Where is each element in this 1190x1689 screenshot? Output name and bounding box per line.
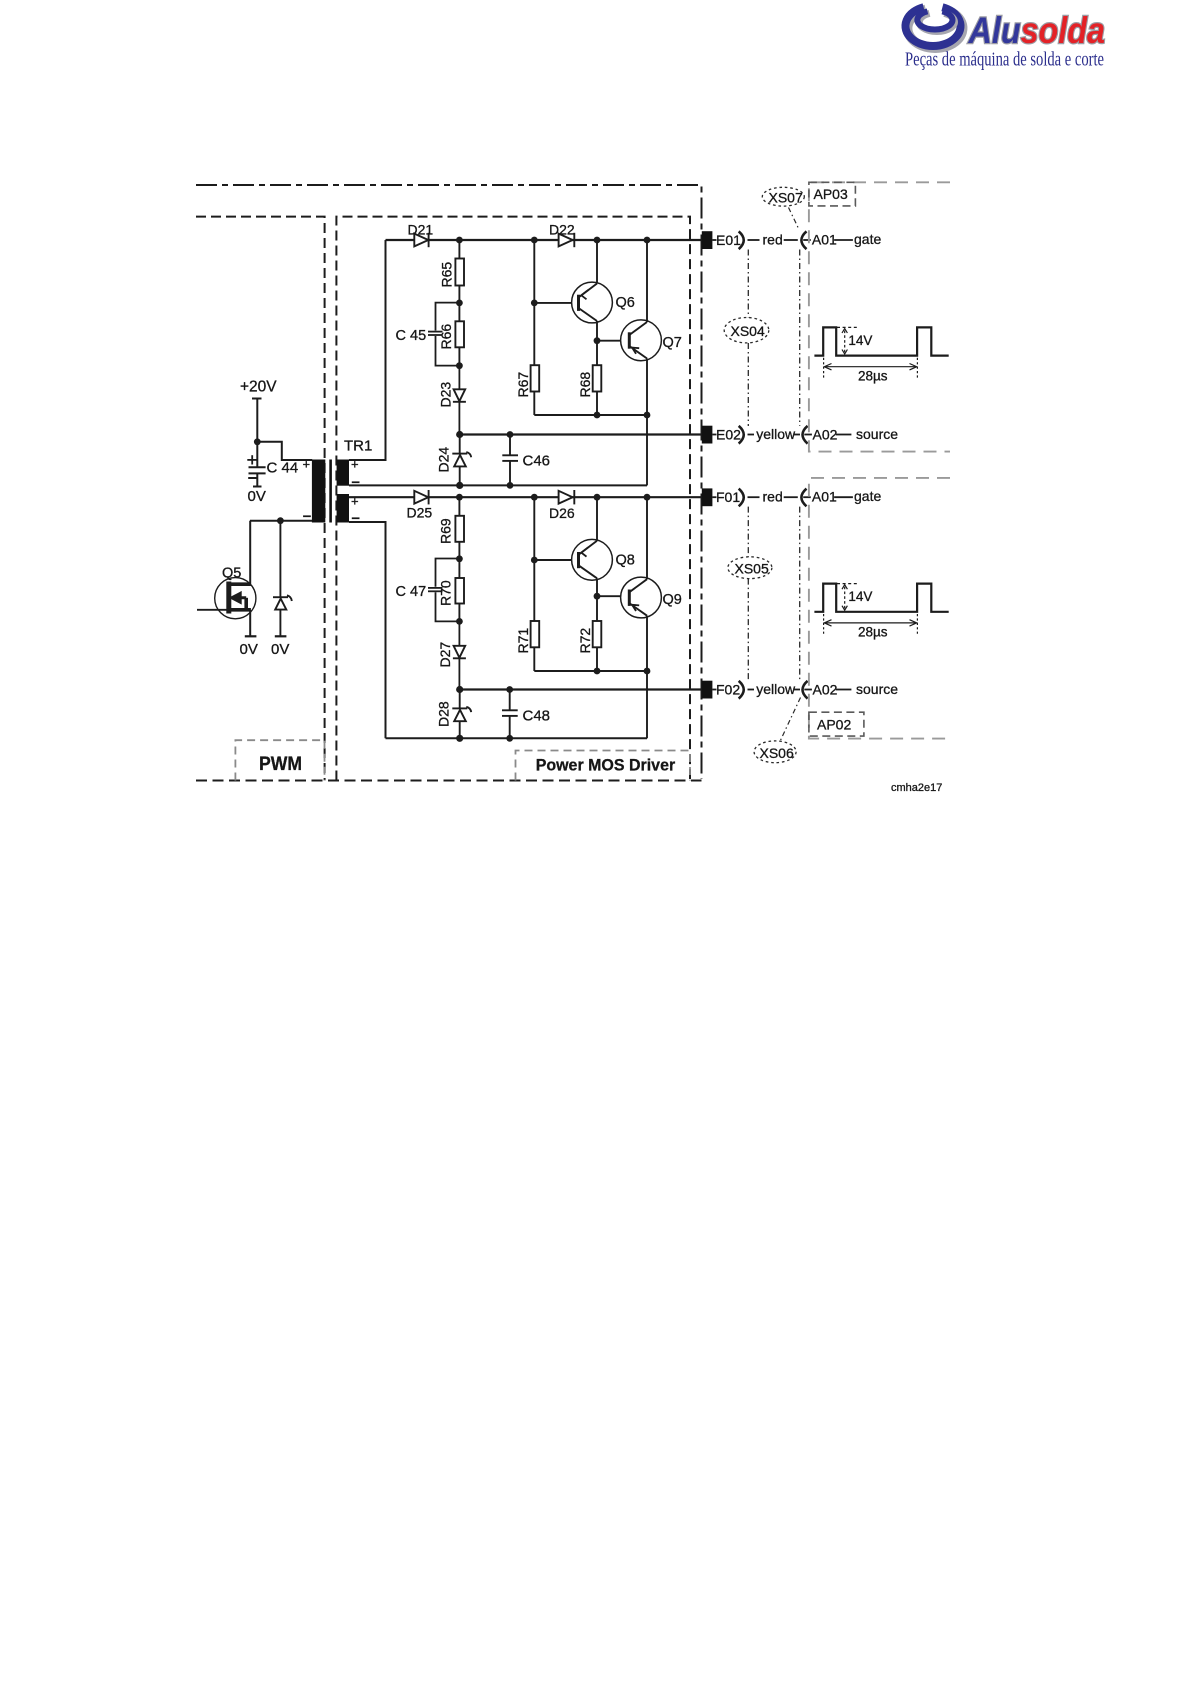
svg-text:C 44: C 44 — [267, 460, 299, 477]
A01 plug arc F row — [801, 489, 806, 507]
wire R68 bottom — [596, 392, 598, 416]
PWM label box — [235, 740, 324, 780]
cable line XS04 left — [747, 250, 749, 427]
wire F01 to red — [748, 496, 760, 498]
F02 socket arc — [739, 681, 744, 699]
svg-text:+: + — [351, 457, 359, 472]
svg-text:–: – — [303, 508, 311, 525]
svg-text:C 45: C 45 — [396, 328, 427, 344]
+20V terminal tick — [252, 398, 262, 400]
wire Q9 collector to return — [646, 671, 648, 738]
svg-text:R71: R71 — [515, 628, 531, 654]
wire R69 to node — [458, 542, 460, 559]
svg-text:R66: R66 — [438, 324, 454, 350]
wire node to TR1 primary + — [257, 442, 312, 460]
E02 stub — [712, 434, 716, 436]
wire Q6 base — [534, 302, 572, 304]
wire upper secondary + up to gate rail — [349, 240, 386, 460]
outer dash-dot boundary box — [196, 185, 702, 781]
svg-text:14V: 14V — [848, 333, 872, 348]
cable line XS05 left — [747, 507, 749, 681]
node Q8 base — [531, 557, 538, 564]
connector E02 block — [702, 426, 713, 444]
wire F02 to yellow — [748, 689, 755, 691]
E01 stub — [712, 239, 716, 241]
svg-text:D21: D21 — [408, 222, 434, 238]
connector F01 block — [702, 488, 713, 506]
svg-text:red: red — [763, 232, 783, 248]
svg-text:28µs: 28µs — [858, 625, 888, 640]
svg-text:source: source — [856, 426, 898, 442]
F02 stub — [712, 689, 716, 691]
XS06 ellipse — [754, 741, 796, 763]
svg-text:C48: C48 — [523, 708, 551, 725]
resistor R66 — [455, 303, 464, 366]
svg-text:D28: D28 — [436, 701, 452, 727]
transformer TR1 lower secondary winding — [337, 494, 349, 523]
transistor Q9 — [621, 497, 662, 671]
svg-text:F01: F01 — [716, 489, 740, 505]
XS07 ellipse — [762, 187, 804, 206]
wire yellow to plug — [794, 434, 800, 436]
0V rail wire to TR1 primary - — [250, 520, 312, 522]
svg-text:D22: D22 — [549, 222, 575, 238]
wire R67 bottom — [533, 392, 535, 416]
14V annotation upper — [837, 327, 859, 354]
transistor Q5 (MOSFET) — [197, 521, 256, 637]
svg-text:D23: D23 — [438, 382, 454, 408]
wire node to R72 — [596, 596, 598, 621]
wire R71 bottom — [533, 647, 535, 671]
connector E01 block — [702, 231, 713, 249]
wire Q7 collector to return — [646, 415, 648, 485]
wire upper emitter bus — [534, 414, 647, 416]
svg-text:TR1: TR1 — [344, 438, 372, 455]
E02 socket arc — [739, 426, 744, 444]
wire A02 to source F row — [836, 689, 852, 691]
svg-text:Power MOS Driver: Power MOS Driver — [536, 756, 676, 775]
node Q6 emitter / Q7 base — [594, 337, 601, 344]
wire A01 to gate — [834, 239, 853, 241]
28us annotation upper — [824, 358, 918, 378]
Power MOS Driver label box — [516, 751, 691, 781]
wire E02 source rail — [460, 433, 702, 435]
svg-text:A02: A02 — [813, 427, 838, 443]
capacitor C45 bracket — [428, 303, 459, 366]
wire Q9 base — [597, 595, 621, 597]
28us annotation lower — [824, 614, 918, 634]
svg-text:E02: E02 — [716, 427, 741, 443]
svg-text:A01: A01 — [812, 232, 837, 248]
diode D25 — [414, 490, 428, 504]
svg-text:XS07: XS07 — [769, 190, 803, 206]
capacitor C44 — [247, 442, 265, 487]
svg-text:yellow: yellow — [756, 681, 796, 697]
svg-text:A02: A02 — [813, 682, 838, 698]
svg-text:R70: R70 — [438, 580, 454, 606]
svg-text:0V: 0V — [240, 641, 258, 658]
svg-text:cmha2e17: cmha2e17 — [891, 782, 942, 794]
wire A01 to gate F row — [834, 496, 853, 498]
transistor Q7 — [621, 240, 662, 415]
node gate rail / Q7 — [644, 237, 651, 244]
svg-text:D25: D25 — [407, 505, 433, 521]
svg-text:0V: 0V — [271, 641, 289, 658]
resistor R68 — [593, 365, 602, 391]
svg-text:Q8: Q8 — [616, 553, 635, 569]
node R66/C45 bottom — [456, 362, 463, 369]
resistor R65 — [455, 259, 464, 286]
svg-text:R67: R67 — [515, 372, 531, 398]
node return / C46 — [507, 482, 514, 489]
node E02 rail / D24 — [456, 431, 463, 438]
A02 pin tick E row — [804, 434, 812, 436]
logo Alusolda wordmark — [968, 10, 1105, 51]
A01 pin tick E row — [803, 239, 811, 241]
svg-text:F02: F02 — [716, 682, 740, 698]
node lower emitter bus / Q9 — [644, 668, 651, 675]
node gate rail / Q6 — [594, 237, 601, 244]
wire E01 gate rail — [386, 239, 703, 241]
resistor R70 — [455, 559, 464, 622]
svg-text:A01: A01 — [812, 489, 837, 505]
wire A02 to source — [836, 434, 852, 436]
node F01 rail / Q8 — [594, 494, 601, 501]
svg-text:XS04: XS04 — [731, 323, 765, 339]
wire red to plug F row — [784, 496, 798, 498]
XS05 ellipse — [728, 557, 772, 579]
svg-text:R65: R65 — [439, 262, 455, 288]
cable line XS05 right — [799, 507, 801, 681]
svg-text:C 47: C 47 — [396, 584, 427, 600]
svg-text:+: + — [351, 494, 359, 509]
node R69/R70/C47 top — [456, 555, 463, 562]
svg-text:14V: 14V — [848, 589, 872, 604]
node R70/C47 bottom — [456, 618, 463, 625]
transformer TR1 core — [329, 460, 332, 523]
node lower emitter bus / R72 — [594, 668, 601, 675]
node return / C48 — [506, 735, 513, 742]
PWM block dashed box — [196, 217, 325, 781]
wire F02 source rail — [460, 688, 702, 690]
capacitor C47 bracket — [428, 559, 459, 622]
cable line XS04 right — [799, 250, 801, 426]
Power MOS Driver block dashed box — [336, 217, 690, 781]
node at +20V branch — [254, 438, 261, 445]
svg-text:Q6: Q6 — [616, 295, 635, 311]
E01 socket arc — [739, 231, 744, 249]
wire rail to R65 — [458, 240, 460, 259]
wire rail to Q6 base resistor chain — [533, 240, 535, 365]
node on 0V rail — [277, 517, 284, 524]
node return / D28 — [456, 735, 463, 742]
node F01 rail / Q9 — [644, 494, 651, 501]
wire rail to Q8 base resistor chain — [533, 497, 535, 621]
svg-text:AP02: AP02 — [817, 717, 851, 733]
resistor R71 — [531, 621, 540, 647]
AP02 dashed box — [809, 478, 950, 739]
diode D26 — [559, 490, 575, 504]
svg-text:+: + — [303, 457, 311, 472]
zener diode D24 — [452, 435, 471, 486]
node E02 rail / C46 — [507, 431, 514, 438]
node emitter bus / Q7 — [644, 412, 651, 419]
zener diode D28 — [452, 690, 471, 739]
svg-text:yellow: yellow — [756, 426, 796, 442]
F01 socket arc — [739, 489, 744, 507]
gate waveform upper — [814, 327, 948, 355]
svg-text:–: – — [352, 510, 360, 527]
svg-text:XS06: XS06 — [760, 745, 794, 761]
XS07 leader — [789, 208, 800, 230]
AP02 label box — [809, 712, 864, 736]
svg-text:R72: R72 — [577, 628, 593, 654]
XS04 ellipse — [724, 318, 769, 343]
diode D23 — [453, 366, 466, 435]
A02 plug arc F row — [803, 681, 808, 699]
wire upper secondary - return line — [349, 484, 647, 486]
node Q8 emitter / Q9 base — [594, 593, 601, 600]
transformer TR1 primary winding — [312, 460, 325, 523]
wire lower return line — [386, 737, 648, 739]
wire F01 gate rail — [349, 496, 702, 498]
wire lower secondary - down to lower return — [349, 522, 386, 738]
wire +20V down to node — [256, 399, 258, 442]
svg-text:PWM: PWM — [259, 754, 302, 775]
resistor R67 — [531, 365, 540, 391]
node F01 rail / R69 — [456, 494, 463, 501]
capacitor C48 — [502, 690, 518, 739]
node F02 rail / D28 — [456, 686, 463, 693]
svg-text:gate: gate — [854, 488, 881, 504]
AP03 label box — [809, 182, 856, 206]
wire R65 to node — [458, 286, 460, 303]
node gate rail / R67 branch — [531, 237, 538, 244]
svg-text:red: red — [763, 489, 783, 505]
transistor Q6 — [572, 240, 613, 341]
svg-text:Q9: Q9 — [663, 592, 682, 608]
svg-text:E01: E01 — [716, 232, 741, 248]
wire E02 to yellow — [748, 434, 755, 436]
transformer TR1 upper secondary winding — [337, 460, 349, 486]
zener diode beside Q5 — [273, 521, 292, 637]
svg-text:D26: D26 — [549, 505, 575, 521]
F01 stub — [712, 496, 716, 498]
svg-text:R69: R69 — [438, 518, 454, 544]
A01 pin tick F row — [803, 496, 811, 498]
resistor R72 — [593, 621, 602, 647]
svg-text:source: source — [856, 681, 898, 697]
svg-text:28µs: 28µs — [858, 369, 888, 384]
transistor Q8 — [572, 497, 613, 596]
resistor R69 — [455, 516, 464, 542]
diode D21 — [414, 233, 428, 247]
svg-text:Alusolda: Alusolda — [968, 10, 1105, 51]
XS06 leader — [781, 698, 801, 741]
wire E01 to red — [748, 239, 760, 241]
gate waveform lower — [814, 584, 948, 612]
node return / D24 — [456, 482, 463, 489]
svg-text:–: – — [352, 474, 360, 491]
node gate rail / R65 — [456, 237, 463, 244]
node emitter bus / R68 — [594, 412, 601, 419]
capacitor C46 — [502, 435, 518, 486]
node Q6 base — [531, 300, 538, 307]
wire R72 bottom — [596, 647, 598, 671]
connector F02 block — [702, 681, 713, 699]
svg-text:AP03: AP03 — [814, 186, 848, 202]
svg-text:+20V: +20V — [240, 379, 277, 396]
svg-text:0V: 0V — [248, 488, 266, 505]
svg-text:gate: gate — [854, 231, 881, 247]
logo Alusolda icon — [906, 7, 963, 48]
AP03 dashed box — [809, 182, 950, 451]
wire red to plug — [784, 239, 798, 241]
A01 plug arc E row — [801, 231, 806, 249]
svg-text:R68: R68 — [577, 372, 593, 398]
wire Q8 base — [534, 559, 572, 561]
node F02 rail / C48 — [506, 686, 513, 693]
A02 plug arc E row — [803, 426, 808, 444]
svg-text:Q5: Q5 — [222, 566, 241, 582]
svg-text:XS05: XS05 — [735, 561, 769, 577]
wire rail to R69 — [458, 497, 460, 516]
svg-text:D24: D24 — [436, 447, 452, 473]
wire lower emitter bus — [534, 670, 647, 672]
diode D22 — [559, 233, 575, 247]
svg-text:D27: D27 — [437, 642, 453, 668]
14V annotation lower — [837, 584, 859, 611]
svg-text:Q7: Q7 — [663, 335, 682, 351]
svg-text:Peças de máquina de solda e co: Peças de máquina de solda e corte — [905, 49, 1104, 71]
diode D27 — [453, 621, 466, 689]
A02 pin tick F row — [804, 689, 812, 691]
wire node to R68 — [596, 341, 598, 366]
wire Q7 base — [597, 340, 621, 342]
node F01 rail / R71 branch — [531, 494, 538, 501]
svg-text:C46: C46 — [523, 453, 551, 470]
node R65/R66/C45 top — [456, 300, 463, 307]
wire yellow to plug F row — [794, 689, 800, 691]
